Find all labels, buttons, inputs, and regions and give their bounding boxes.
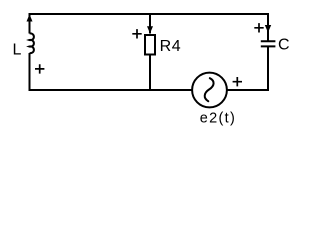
wire middle upper [149, 14, 151, 34]
resistor R4 [145, 35, 155, 55]
plus near R4 [132, 29, 141, 38]
wire right upper [267, 14, 269, 41]
wire bottom right [227, 89, 269, 91]
sine wave inside source [205, 78, 214, 101]
wire right lower [267, 46, 269, 91]
arrow down into C [265, 25, 271, 33]
wire top [29, 13, 270, 15]
plus near C [254, 23, 263, 32]
inductor L [30, 33, 34, 53]
wire bottom left [29, 89, 193, 91]
arrow up at left branch [27, 14, 33, 21]
svg-text:C: C [278, 37, 290, 54]
capacitor C plates [261, 41, 276, 46]
source e2 circle [192, 73, 227, 108]
arrow down into R4 [147, 26, 153, 33]
wire left lower [29, 53, 31, 91]
svg-text:R4: R4 [160, 38, 182, 55]
plus near source [233, 77, 242, 86]
svg-text:e2(t): e2(t) [200, 111, 236, 127]
plus near L [35, 64, 44, 73]
svg-text:L: L [13, 42, 22, 59]
wire middle lower [149, 55, 151, 91]
wire left upper [29, 14, 31, 34]
